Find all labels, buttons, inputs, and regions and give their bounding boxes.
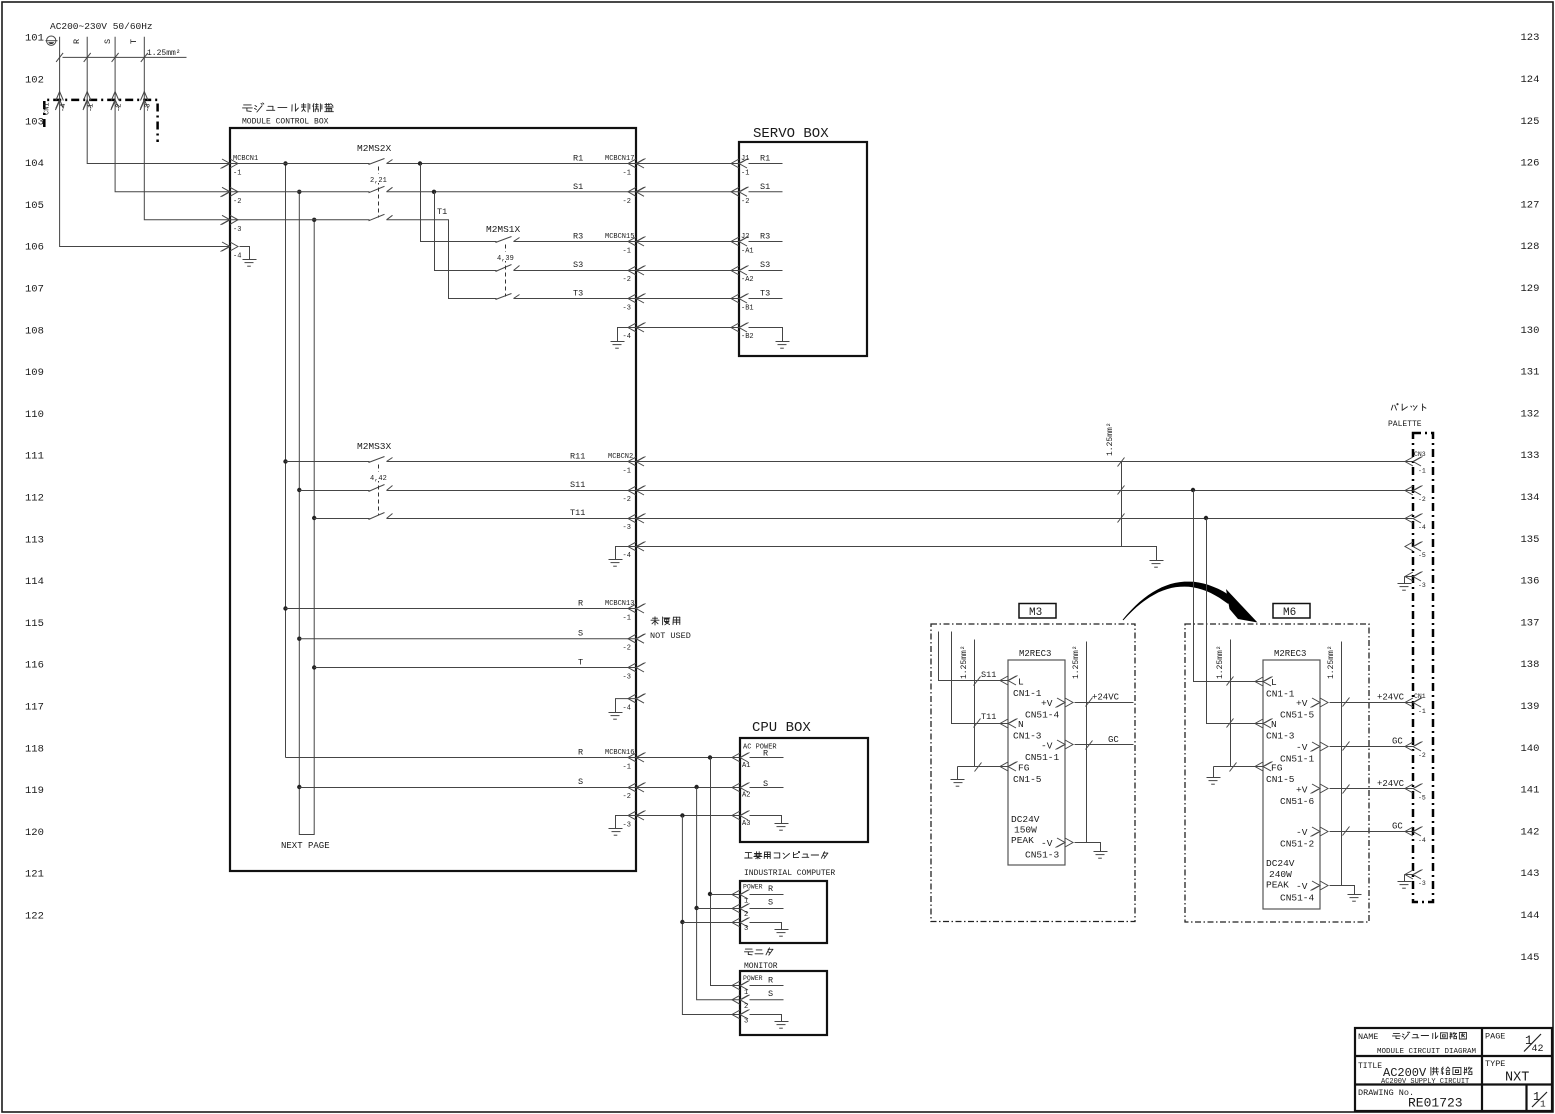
wire T row — [314, 667, 636, 669]
svg-text:110: 110 — [25, 409, 44, 421]
ic label POWER R — [743, 884, 773, 895]
ground at MCBCN13 -4 — [609, 699, 637, 720]
breaker M2MS3X pole R11 — [369, 457, 393, 463]
net label R3 — [573, 232, 583, 242]
svg-text:125: 125 — [1521, 116, 1540, 128]
net label R11 — [570, 452, 585, 462]
svg-text:126: 126 — [1521, 158, 1540, 170]
wire R1 right segment — [387, 161, 637, 165]
power supply M2REC3 (M3) outline — [1008, 660, 1065, 865]
svg-text:T11: T11 — [570, 508, 585, 518]
phase label T — [129, 39, 139, 44]
connector MCBCN16 label — [605, 749, 634, 757]
connector MCBCN15 pin -1 — [623, 237, 646, 256]
wire R11 left segment — [286, 461, 370, 463]
arrow from M3 to M6 — [1123, 582, 1258, 623]
M3 pin N CN1-3 — [1000, 719, 1042, 742]
svg-text:CN1-1: CN1-1 — [1013, 688, 1042, 699]
breaker M2MS1X ref 4,39 — [496, 252, 515, 263]
svg-text:CN1-1: CN1-1 — [1266, 689, 1295, 700]
cpu box title — [752, 720, 811, 736]
svg-text:136: 136 — [1521, 576, 1540, 588]
M3 pin L CN1-1 — [1000, 676, 1042, 700]
connector MCBCN13 label — [605, 600, 634, 608]
wire 1.25mm2 drop — [1118, 458, 1125, 547]
svg-text:132: 132 — [1521, 408, 1540, 420]
connector MCBCN2 pin -3 — [623, 514, 646, 533]
svg-text:-2: -2 — [623, 198, 631, 206]
connector CN3 pin -4 — [1405, 514, 1426, 532]
connector MCBCN15 pin -2 — [623, 266, 646, 285]
wire bus T vertical — [312, 218, 316, 827]
svg-text:3: 3 — [744, 925, 748, 933]
breaker M2MS2X ref 2,21 — [369, 174, 388, 185]
svg-text:N: N — [1271, 719, 1277, 730]
svg-text:RE01723: RE01723 — [1408, 1096, 1463, 1111]
connector MCBCN1 pin -3 — [221, 215, 242, 234]
svg-text:42: 42 — [1532, 1044, 1544, 1055]
wire M3 GC — [1075, 735, 1134, 750]
svg-text:N: N — [1018, 719, 1024, 730]
monitor pin 2 — [732, 989, 784, 1011]
connector J2 pin -B1 — [731, 289, 783, 313]
ground at M3 FG — [951, 767, 965, 787]
connector CN3 pin -5 — [1405, 542, 1426, 560]
svg-text:MODULE CONTROL BOX: MODULE CONTROL BOX — [242, 118, 329, 127]
wire T11 left segment — [314, 518, 369, 520]
svg-text:240W: 240W — [1269, 869, 1292, 880]
svg-text:115: 115 — [25, 618, 44, 630]
svg-text:A2: A2 — [742, 792, 750, 800]
connector MCBCN17 pin -1 — [623, 159, 646, 178]
cpu pin A1 — [732, 749, 784, 771]
title block sheet number — [1532, 1090, 1547, 1110]
monitor title JP — [745, 948, 773, 955]
wire M6 L entry — [1194, 491, 1264, 686]
wire S row to cpu — [299, 785, 740, 789]
svg-text:MODULE CIRCUIT DIAGRAM: MODULE CIRCUIT DIAGRAM — [1377, 1048, 1477, 1056]
svg-text:NAME: NAME — [1358, 1032, 1378, 1042]
palette title JP — [1391, 404, 1426, 411]
svg-text:134: 134 — [1521, 492, 1540, 504]
svg-text:-3: -3 — [233, 226, 241, 234]
net label T11 — [570, 508, 585, 518]
wire M3 S11 entry — [939, 632, 1009, 686]
svg-text:-4: -4 — [623, 333, 631, 341]
svg-text:CN51-1: CN51-1 — [1280, 754, 1315, 765]
power supply M2REC3 (M6) label — [1274, 649, 1306, 659]
label NOT USED — [650, 631, 691, 641]
breaker M2MS2X label — [357, 143, 392, 154]
svg-text:1.25mm²: 1.25mm² — [1327, 645, 1336, 679]
palette dash-dot outline — [1413, 433, 1433, 902]
module M6 dashed outline — [1185, 624, 1369, 922]
svg-text:-1: -1 — [741, 170, 749, 178]
svg-text:-2: -2 — [741, 198, 749, 206]
next page continuation bracket — [281, 827, 330, 852]
svg-text:118: 118 — [25, 743, 44, 755]
svg-text:M2MS2X: M2MS2X — [357, 143, 392, 154]
svg-text:137: 137 — [1521, 617, 1540, 629]
M6 pin -V CN51-1 — [1280, 742, 1328, 765]
svg-text:-3: -3 — [145, 104, 153, 112]
wire S1 branch to S3 — [435, 192, 497, 271]
svg-text:4,42: 4,42 — [370, 475, 387, 483]
svg-text:-2: -2 — [623, 793, 631, 801]
node T1 label — [437, 207, 447, 217]
connector MCBCN16 pin -3 — [623, 811, 646, 830]
M3 pin FG CN1-5 — [1000, 762, 1042, 786]
svg-text:-5: -5 — [1418, 795, 1426, 802]
svg-text:1.25mm²: 1.25mm² — [1216, 645, 1225, 679]
right margin row numbers 123-145 — [1521, 32, 1540, 964]
M6 pin FG CN1-5 — [1255, 762, 1295, 786]
svg-text:CN1-3: CN1-3 — [1013, 731, 1042, 742]
svg-text:+24VC: +24VC — [1092, 693, 1120, 703]
svg-text:-4: -4 — [1418, 837, 1426, 844]
power supply M2REC3 (M6) outline — [1263, 660, 1320, 909]
svg-text:R3: R3 — [573, 232, 583, 242]
svg-text:M3: M3 — [1029, 607, 1042, 619]
svg-text:-A2: -A2 — [741, 276, 754, 284]
svg-text:M2REC3: M2REC3 — [1019, 649, 1051, 659]
breaker M2MS1X pole S3 — [496, 265, 520, 272]
breaker M2MS1X label — [486, 224, 521, 235]
cpu box outline — [740, 738, 868, 842]
svg-text:L: L — [1271, 677, 1277, 688]
svg-text:-1: -1 — [623, 615, 631, 623]
connector CN1 dash-dot outline — [44, 100, 157, 142]
ground at MCBCN2 -4 inside — [609, 547, 637, 567]
wire R1 left segment — [231, 163, 370, 165]
connector CN1 palette pin -3 — [1405, 870, 1426, 888]
svg-text:INDUSTRIAL COMPUTER: INDUSTRIAL COMPUTER — [744, 869, 835, 878]
svg-text:+24VC: +24VC — [1377, 693, 1405, 703]
wire drop S to lower boxes — [694, 788, 740, 1000]
svg-text:CN1-5: CN1-5 — [1266, 774, 1295, 785]
svg-text:PEAK: PEAK — [1011, 835, 1034, 846]
svg-text:144: 144 — [1521, 910, 1540, 922]
net label S3 — [573, 260, 583, 270]
monitor title EN — [744, 962, 778, 971]
connector MCBCN15 pin -3 — [623, 294, 646, 313]
connector MCBCN2 label — [608, 453, 633, 461]
connector CN1 pin -3 arrow — [140, 92, 152, 113]
net label S11 — [570, 480, 585, 490]
svg-text:GC: GC — [1108, 735, 1119, 745]
M6 pin L CN1-1 — [1255, 677, 1295, 700]
connector MCBCN16 pin -2 — [623, 783, 646, 802]
connector CN3 label — [1414, 451, 1426, 458]
svg-text:133: 133 — [1521, 450, 1540, 462]
wire T11 long segment — [387, 516, 1414, 520]
svg-text:R: R — [72, 39, 82, 44]
svg-text:107: 107 — [25, 284, 44, 296]
connector MCBCN13 pin -2 — [623, 634, 646, 653]
svg-text:-4: -4 — [623, 705, 631, 713]
svg-text:1.25mm²: 1.25mm² — [1106, 422, 1115, 456]
svg-text:109: 109 — [25, 367, 44, 379]
svg-text:-2: -2 — [623, 496, 631, 504]
connector MCBCN2 pin -4 — [623, 542, 646, 561]
svg-text:S: S — [578, 629, 583, 639]
connector J2 pin -A1 — [731, 232, 783, 256]
svg-text:-V: -V — [1296, 827, 1308, 838]
svg-text:-V: -V — [1296, 742, 1308, 753]
svg-text:105: 105 — [25, 200, 44, 212]
wire M3 right drop — [1086, 642, 1088, 843]
svg-text:S3: S3 — [573, 260, 583, 270]
wire bus S vertical — [297, 190, 301, 827]
svg-text:-1: -1 — [623, 764, 631, 772]
wire R1 branch to R3 — [421, 164, 497, 242]
connector MCBCN2 pin -2 — [623, 486, 646, 505]
connector MCBCN17 label — [605, 155, 634, 163]
svg-text:-3: -3 — [623, 674, 631, 682]
svg-text:-1: -1 — [623, 468, 631, 476]
svg-text:141: 141 — [1521, 785, 1540, 797]
ground at M6 CN51-4 — [1348, 895, 1362, 902]
connector J2 pin -B2 — [731, 323, 754, 342]
svg-text:R: R — [578, 599, 583, 609]
connector CN1 palette pin -1 — [1405, 698, 1426, 716]
connector J2 pin -A2 — [731, 260, 783, 284]
svg-text:130: 130 — [1521, 325, 1540, 337]
title block title EN — [1381, 1078, 1469, 1086]
svg-text:-A1: -A1 — [741, 248, 754, 256]
connector J2 label — [741, 233, 749, 241]
connector MCBCN13 pin -3 — [623, 663, 646, 682]
protective earth terminal symbol — [46, 36, 58, 45]
wire M6 GC 2 — [1330, 822, 1414, 836]
wire gauge line 1.25mm2 — [56, 49, 186, 62]
connector MCBCN17 pin -2 — [623, 187, 646, 206]
svg-text:POWER: POWER — [743, 884, 763, 891]
svg-text:-4: -4 — [623, 552, 631, 560]
svg-text:AC200~230V 50/60Hz: AC200~230V 50/60Hz — [50, 21, 153, 32]
svg-text:104: 104 — [25, 158, 44, 170]
ground at ic pin3 — [750, 923, 789, 937]
svg-text:-4: -4 — [60, 104, 68, 112]
svg-text:+V: +V — [1041, 698, 1053, 709]
svg-text:-2: -2 — [623, 276, 631, 284]
svg-text:+V: +V — [1296, 698, 1308, 709]
svg-text:128: 128 — [1521, 241, 1540, 253]
title block PAGE — [1485, 1032, 1505, 1042]
connector CN1 palette pin -4 — [1405, 827, 1426, 845]
svg-text:-3: -3 — [1418, 582, 1426, 589]
connector MCBCN1 label — [233, 155, 258, 163]
svg-text:T3: T3 — [573, 289, 583, 299]
wire R11 long segment — [387, 461, 1414, 463]
svg-text:M2MS1X: M2MS1X — [486, 224, 521, 235]
svg-text:MCBCN17: MCBCN17 — [605, 155, 634, 163]
svg-text:A3: A3 — [742, 820, 750, 828]
monitor label POWER R — [743, 975, 773, 986]
wire bus R vertical — [283, 161, 287, 757]
svg-text:POWER: POWER — [743, 975, 763, 982]
title block page number — [1524, 1034, 1544, 1055]
svg-text:S1: S1 — [573, 182, 583, 192]
wire T3 right segment — [514, 298, 637, 300]
svg-text:CN51-6: CN51-6 — [1280, 796, 1315, 807]
breaker M2MS3X ref 4,42 — [369, 472, 388, 483]
phase label S — [103, 39, 113, 44]
wire -3 row to cpu — [637, 813, 741, 817]
svg-text:-1: -1 — [88, 104, 96, 112]
svg-text:NXT: NXT — [1505, 1071, 1529, 1086]
svg-text:-V: -V — [1041, 741, 1053, 752]
wire R3 to servo — [637, 241, 740, 243]
connector CN1 pin -4 arrow — [55, 92, 68, 113]
connector MCBCN13 pin -1 — [623, 604, 646, 623]
wire branch S to industrial computer — [697, 908, 741, 910]
ic pin 3 — [732, 918, 750, 934]
M3 pin +V CN51-4 — [1025, 698, 1073, 721]
ic pin 2 — [732, 898, 784, 920]
M3 rating text — [1011, 814, 1040, 846]
module M3 tag — [1019, 604, 1056, 620]
svg-text:R1: R1 — [760, 154, 770, 164]
servo box outline — [739, 142, 867, 356]
svg-text:-2: -2 — [233, 198, 241, 206]
label M6 1.25mm2 right — [1327, 645, 1336, 679]
cpu pin A3 — [732, 811, 750, 829]
wire M6 CN51-4 to ground — [1330, 886, 1355, 895]
label not used JP — [651, 617, 680, 625]
title block DRAWING No. — [1358, 1088, 1414, 1098]
svg-text:-V: -V — [1041, 838, 1053, 849]
svg-text:R11: R11 — [570, 452, 585, 462]
svg-text:R: R — [768, 976, 773, 986]
wire R row — [286, 608, 637, 610]
M6 rating text — [1266, 858, 1295, 891]
svg-text:-3: -3 — [1418, 880, 1426, 887]
svg-text:AC200V SUPPLY CIRCUIT: AC200V SUPPLY CIRCUIT — [1381, 1078, 1469, 1086]
svg-text:-1: -1 — [623, 248, 631, 256]
svg-text:139: 139 — [1521, 701, 1540, 713]
connector J1 pin -2 — [731, 182, 783, 206]
wire S1 left segment — [231, 191, 370, 193]
svg-text:102: 102 — [25, 75, 44, 87]
svg-text:113: 113 — [25, 534, 44, 546]
svg-text:123: 123 — [1521, 32, 1540, 44]
wire T3 to servo — [637, 298, 740, 300]
industrial computer outline — [740, 881, 827, 943]
phase label R — [72, 39, 82, 44]
wire M3 FG — [958, 763, 1009, 772]
breaker M2MS3X link — [378, 465, 380, 516]
breaker M2MS3X pole S11 — [369, 485, 393, 492]
svg-text:R: R — [763, 749, 768, 759]
svg-text:CN51-1: CN51-1 — [1025, 752, 1060, 763]
wire M6 +24VC 2 — [1330, 779, 1414, 794]
connector MCBCN16 pin -1 — [623, 753, 646, 772]
cpu pin A2 — [732, 779, 784, 800]
breaker M2MS1X pole R3 — [496, 237, 520, 243]
wire -4 ground bus right — [637, 547, 1157, 561]
svg-text:142: 142 — [1521, 826, 1540, 838]
servo box title — [753, 126, 829, 142]
title block name JP — [1392, 1032, 1466, 1039]
label M6 1.25mm2 left — [1216, 645, 1225, 679]
wire drop E to lower boxes — [680, 816, 740, 1015]
svg-text:NEXT PAGE: NEXT PAGE — [281, 841, 330, 851]
connector CN1 pin -1 arrow — [83, 92, 96, 113]
svg-text:T3: T3 — [760, 289, 770, 299]
svg-text:-2: -2 — [1418, 752, 1426, 759]
svg-text:-1: -1 — [233, 170, 241, 178]
connector MCBCN13 pin -4 — [623, 694, 646, 713]
svg-text:R: R — [578, 748, 583, 758]
wire M6 N entry — [1207, 519, 1264, 728]
wire T jog to T3 — [387, 220, 497, 299]
svg-text:PEAK: PEAK — [1266, 880, 1289, 891]
wire R3 right segment — [514, 241, 637, 243]
svg-text:114: 114 — [25, 576, 44, 588]
title block drawing number — [1408, 1096, 1463, 1111]
monitor pin1 stub — [750, 985, 784, 987]
label M3 1.25mm2 right — [1072, 645, 1081, 679]
svg-text:2,21: 2,21 — [370, 177, 387, 185]
svg-text:R3: R3 — [760, 232, 770, 242]
ground at MCBCN1 -4 — [240, 247, 257, 267]
svg-text:S: S — [578, 777, 583, 787]
svg-text:3: 3 — [744, 1018, 748, 1026]
ground at servo -B2 — [749, 328, 790, 349]
svg-text:M2MS3X: M2MS3X — [357, 441, 392, 452]
svg-text:140: 140 — [1521, 743, 1540, 755]
M6 pin -V CN51-2 — [1280, 827, 1328, 850]
svg-text:131: 131 — [1521, 367, 1540, 379]
svg-text:TYPE: TYPE — [1485, 1059, 1505, 1069]
svg-text:143: 143 — [1521, 868, 1540, 880]
title block NAME — [1358, 1032, 1378, 1042]
svg-text:CN51-2: CN51-2 — [1280, 839, 1315, 850]
wire S vertical — [115, 37, 230, 192]
connector CN3 pin -3 — [1405, 572, 1426, 590]
svg-text:R: R — [768, 884, 773, 894]
ground at monitor pin3 — [750, 1015, 789, 1029]
svg-text:2: 2 — [744, 1003, 748, 1011]
wire M6 FG — [1214, 763, 1264, 772]
svg-text:129: 129 — [1521, 283, 1540, 295]
svg-text:101: 101 — [25, 33, 44, 45]
wire S3 to servo — [637, 270, 740, 272]
connector MCBCN1 pin -4 — [221, 242, 242, 261]
ic pin 1 — [732, 890, 784, 906]
wire S11 left segment — [299, 490, 369, 492]
connector CN1 label — [44, 102, 52, 115]
net label R cpu — [578, 748, 583, 758]
connector J1 pin -1 — [731, 154, 783, 178]
svg-text:124: 124 — [1521, 74, 1540, 86]
wire S row — [299, 638, 636, 640]
svg-text:L: L — [1018, 677, 1024, 688]
title block name EN — [1377, 1048, 1477, 1056]
wire S11 long segment — [387, 488, 1414, 492]
svg-text:S1: S1 — [760, 182, 770, 192]
connector CN3 pin -1 — [1405, 457, 1426, 475]
M6 pin +V CN51-6 — [1280, 784, 1328, 807]
svg-text:138: 138 — [1521, 659, 1540, 671]
svg-text:116: 116 — [25, 660, 44, 672]
net label T — [578, 658, 583, 668]
breaker M2MS2X pole R1 — [369, 159, 393, 165]
M6 pin -V CN51-4 — [1280, 881, 1328, 904]
connector J1 label — [741, 155, 749, 163]
industrial computer title EN — [744, 869, 835, 878]
